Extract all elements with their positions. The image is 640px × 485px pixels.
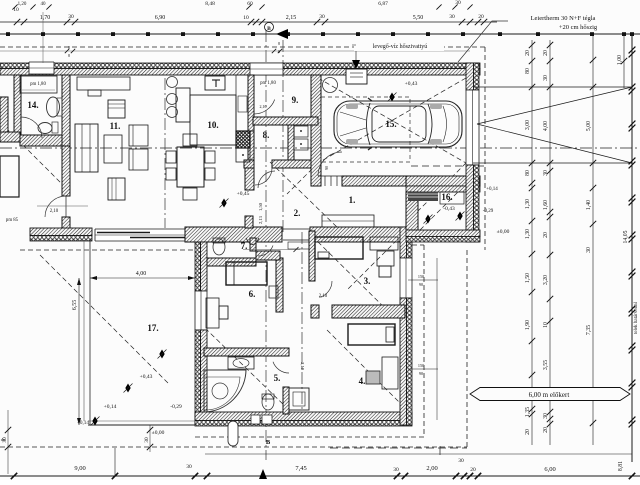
- svg-text:10: 10: [243, 15, 249, 21]
- svg-text:40: 40: [41, 2, 47, 7]
- svg-text:1,30: 1,30: [525, 199, 531, 209]
- svg-text:6,55: 6,55: [72, 300, 78, 311]
- svg-text:8: 8: [68, 53, 70, 58]
- svg-text:16.: 16.: [441, 192, 452, 202]
- svg-text:1,40: 1,40: [586, 200, 592, 210]
- svg-text:-0,43: -0,43: [443, 206, 455, 212]
- svg-text:pm 1,80: pm 1,80: [30, 82, 46, 87]
- svg-text:3,00: 3,00: [525, 120, 531, 130]
- svg-text:6,00: 6,00: [544, 466, 555, 473]
- svg-text:1,70: 1,70: [40, 15, 51, 21]
- svg-text:20: 20: [543, 427, 549, 433]
- svg-text:30: 30: [543, 413, 549, 419]
- svg-text:telek határvonal: telek határvonal: [634, 301, 639, 334]
- svg-text:8: 8: [278, 41, 280, 46]
- svg-text:1,30: 1,30: [525, 229, 531, 239]
- svg-text:30: 30: [186, 464, 192, 470]
- svg-text:2,10: 2,10: [50, 209, 59, 214]
- svg-text:1,35: 1,35: [525, 407, 531, 417]
- svg-text:7.: 7.: [241, 241, 248, 251]
- svg-text:3,20: 3,20: [543, 275, 549, 285]
- svg-text:3,55: 3,55: [543, 360, 549, 370]
- svg-text:8.: 8.: [263, 130, 270, 140]
- svg-text:5,00: 5,00: [586, 121, 592, 131]
- svg-text:B: B: [266, 439, 271, 446]
- svg-text:14.: 14.: [27, 100, 38, 110]
- svg-text:4,00: 4,00: [136, 271, 147, 277]
- svg-text:90: 90: [419, 371, 423, 376]
- svg-text:20: 20: [525, 50, 531, 56]
- svg-text:+0,14: +0,14: [486, 187, 498, 192]
- svg-text:2,10: 2,10: [319, 294, 328, 299]
- svg-text:1,20: 1,20: [18, 2, 27, 7]
- svg-text:-0,29: -0,29: [170, 404, 182, 410]
- svg-text:5.: 5.: [274, 373, 281, 383]
- svg-text:30: 30: [144, 437, 150, 443]
- svg-text:90: 90: [324, 166, 329, 170]
- svg-text:30: 30: [68, 14, 74, 20]
- svg-text:7,45: 7,45: [295, 465, 306, 472]
- svg-text:5,50: 5,50: [413, 15, 424, 21]
- svg-text:2,15: 2,15: [286, 15, 297, 21]
- svg-text:17.: 17.: [147, 323, 158, 333]
- svg-text:1.: 1.: [349, 195, 356, 205]
- svg-text:3.: 3.: [364, 276, 371, 286]
- svg-text:150: 150: [418, 363, 424, 368]
- svg-text:2.: 2.: [294, 208, 301, 218]
- svg-text:30: 30: [449, 14, 455, 20]
- svg-text:+20 cm hőszig: +20 cm hőszig: [559, 24, 598, 31]
- svg-text:30: 30: [458, 458, 464, 464]
- svg-text:80: 80: [525, 170, 531, 176]
- svg-text:Leiertherm 30 N+F tégla: Leiertherm 30 N+F tégla: [531, 15, 596, 22]
- svg-text:30: 30: [393, 467, 399, 473]
- svg-text:1,50: 1,50: [525, 273, 531, 283]
- svg-text:20: 20: [525, 429, 531, 435]
- svg-text:11.: 11.: [110, 121, 121, 131]
- svg-text:150: 150: [418, 274, 424, 279]
- svg-text:7,35: 7,35: [586, 325, 592, 335]
- svg-text:+0,45: +0,45: [237, 191, 250, 197]
- svg-text:30: 30: [543, 75, 549, 81]
- svg-text:30: 30: [543, 170, 549, 176]
- svg-text:20: 20: [543, 232, 549, 238]
- svg-text:+0,14: +0,14: [77, 420, 89, 426]
- svg-text:8,81: 8,81: [618, 461, 624, 471]
- svg-text:+0,14: +0,14: [104, 404, 117, 410]
- svg-text:pm 85: pm 85: [6, 218, 19, 223]
- svg-text:+0,43: +0,43: [405, 81, 418, 87]
- svg-text:8,48: 8,48: [205, 1, 215, 7]
- svg-text:6,00 m előkert: 6,00 m előkert: [529, 391, 570, 399]
- svg-text:15.: 15.: [385, 119, 396, 129]
- svg-text:30: 30: [586, 247, 592, 253]
- svg-text:30: 30: [2, 437, 8, 443]
- svg-text:4.: 4.: [359, 376, 366, 386]
- svg-text:+0,43: +0,43: [140, 374, 153, 380]
- svg-text:-0,29: -0,29: [483, 209, 494, 214]
- svg-text:30: 30: [455, 0, 461, 6]
- svg-text:B: B: [267, 26, 271, 32]
- svg-text:10.: 10.: [207, 120, 218, 130]
- svg-text:9,00: 9,00: [74, 465, 85, 472]
- svg-text:1,60: 1,60: [543, 200, 549, 210]
- svg-text:90: 90: [419, 282, 423, 287]
- svg-text:4,00: 4,00: [543, 121, 549, 131]
- svg-text:80: 80: [525, 68, 531, 74]
- svg-text:9.: 9.: [292, 95, 299, 105]
- svg-text:6,87: 6,87: [378, 1, 388, 7]
- svg-text:±0,00: ±0,00: [497, 229, 510, 235]
- svg-text:6,90: 6,90: [155, 15, 166, 21]
- svg-text:14,05: 14,05: [623, 230, 629, 243]
- svg-text:20: 20: [470, 467, 476, 473]
- svg-text:pm 1,80: pm 1,80: [260, 81, 276, 86]
- svg-text:1,00: 1,00: [617, 55, 623, 65]
- svg-text:6.: 6.: [249, 289, 256, 299]
- svg-text:1,90: 1,90: [525, 320, 531, 330]
- svg-text:2,00: 2,00: [426, 465, 437, 472]
- svg-text:10: 10: [543, 322, 549, 328]
- svg-text:levegő-víz hőszivattyú: levegő-víz hőszivattyú: [373, 44, 427, 50]
- svg-text:20: 20: [543, 50, 549, 56]
- svg-text:±0,00: ±0,00: [152, 430, 165, 436]
